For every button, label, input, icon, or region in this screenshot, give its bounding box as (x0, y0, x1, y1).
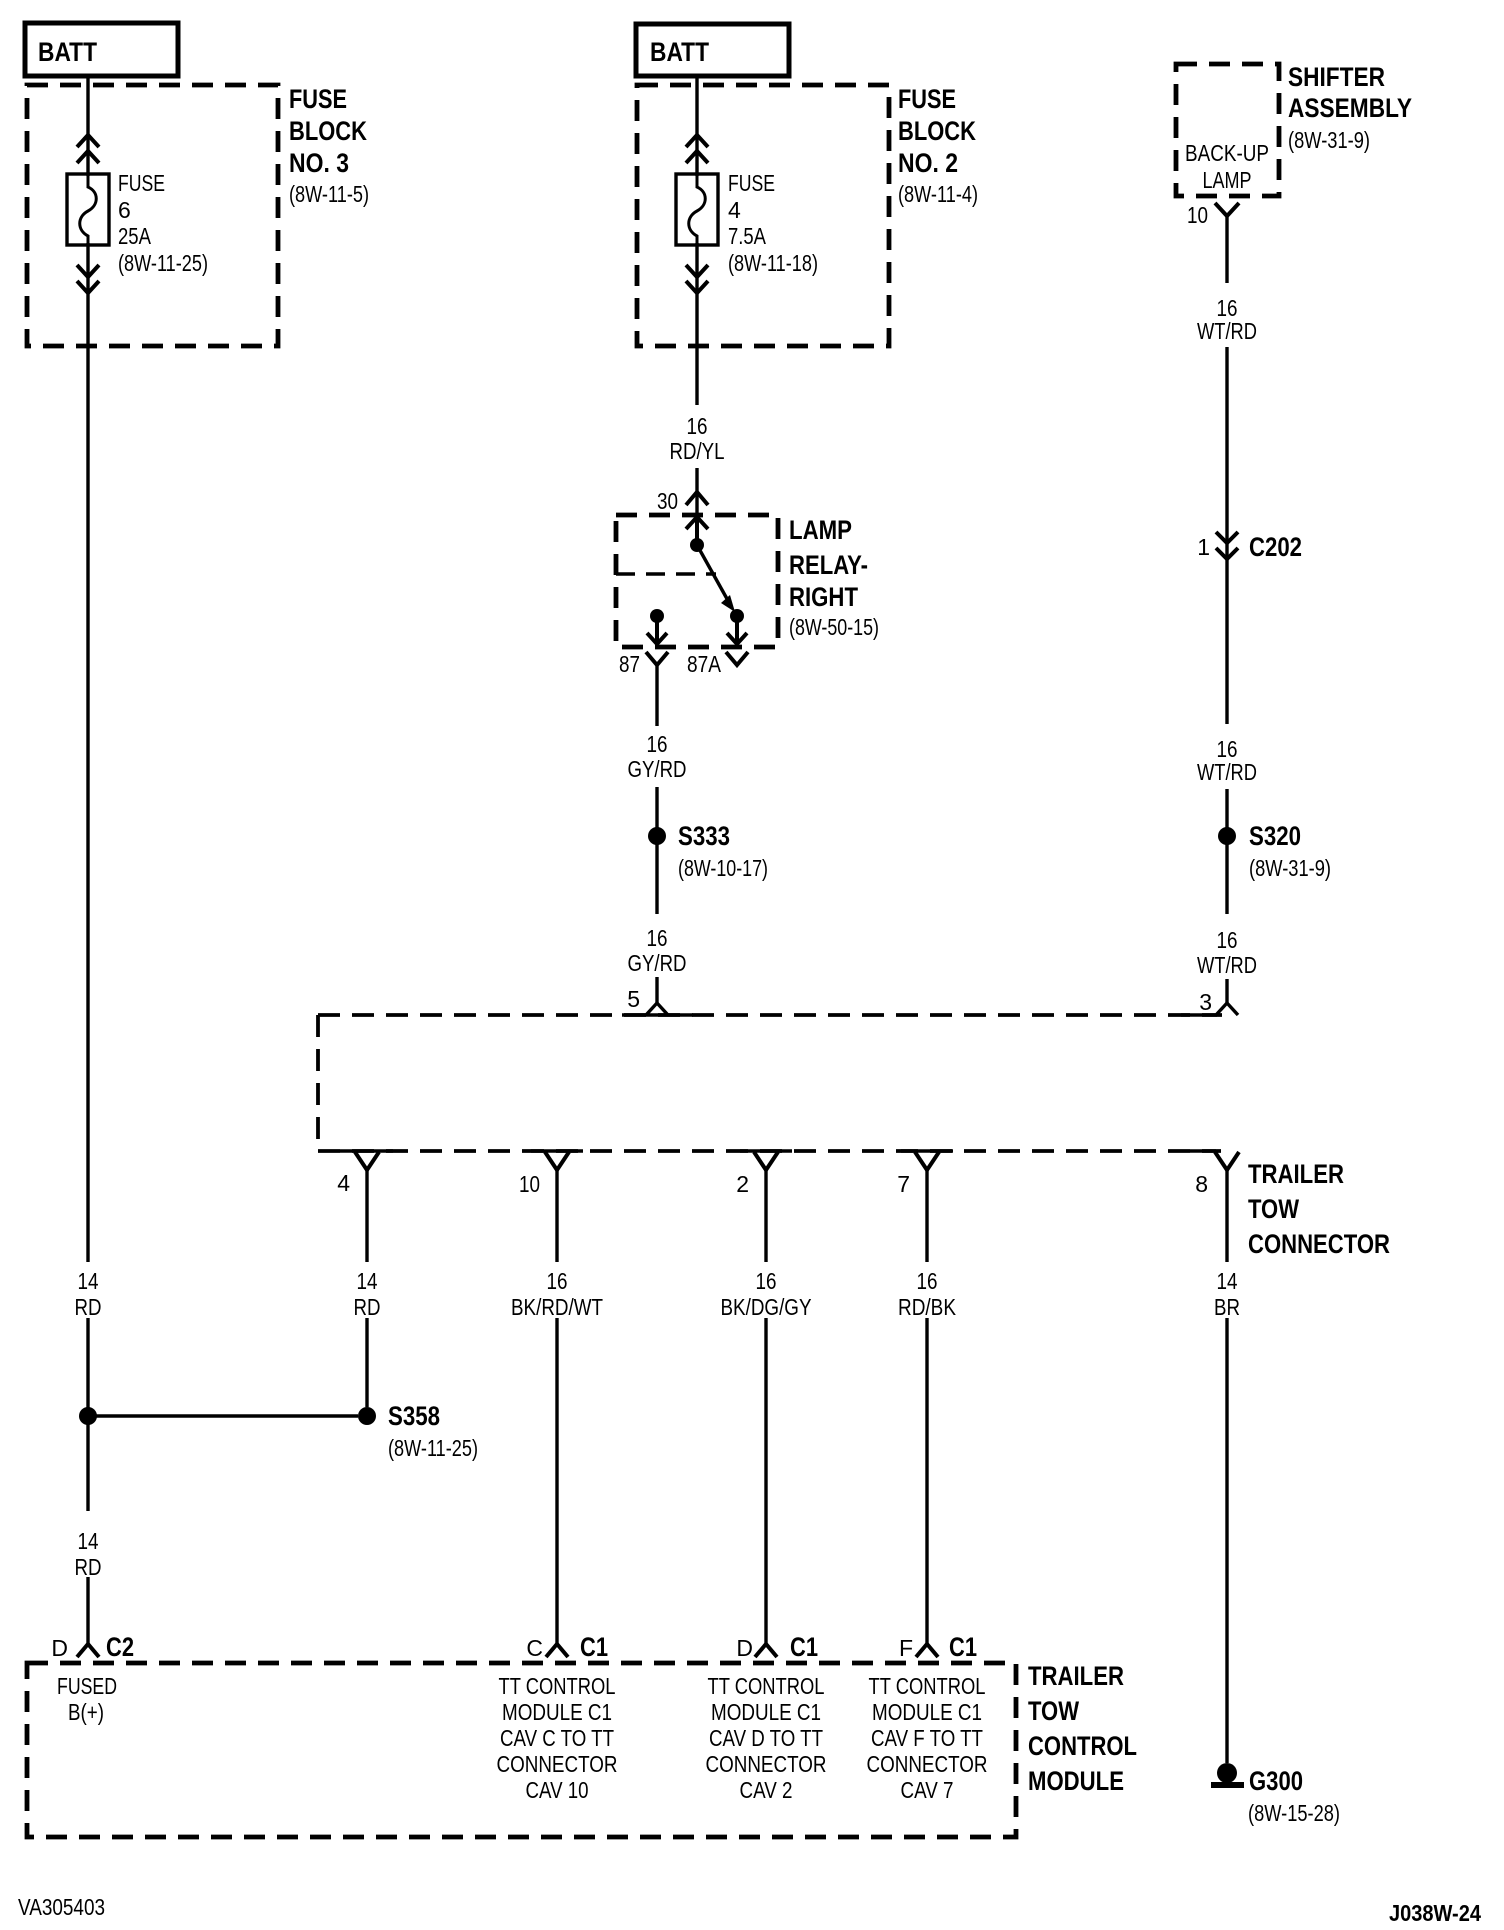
svg-text:WT/RD: WT/RD (1197, 318, 1257, 344)
svg-text:D: D (736, 1635, 753, 1661)
splice S358 left dot (79, 1407, 97, 1425)
fuse block no.2 dashed box (637, 85, 889, 346)
wire label 14 RD left column (75, 1268, 102, 1320)
splice S320 (1218, 827, 1236, 845)
svg-text:1: 1 (1197, 534, 1210, 560)
svg-text:FUSE: FUSE (118, 170, 165, 196)
svg-text:7.5A: 7.5A (728, 223, 767, 249)
battery feed B2 (middle BATT box) (636, 24, 789, 76)
svg-text:FUSE: FUSE (728, 170, 775, 196)
svg-text:ASSEMBLY: ASSEMBLY (1288, 93, 1412, 123)
svg-text:C1: C1 (790, 1632, 818, 1662)
wire fuse F4 to relay pin 30 (695, 243, 698, 405)
svg-text:87: 87 (619, 651, 640, 677)
svg-text:14: 14 (78, 1528, 99, 1554)
svg-text:3: 3 (1199, 989, 1212, 1015)
fuse block no.2 name label (898, 84, 978, 207)
wire pin8 to G300 (1225, 1318, 1228, 1763)
wire label 16 BK/DG/GY (721, 1268, 812, 1320)
wire label 14 RD pin4 (354, 1268, 381, 1320)
svg-text:(8W-31-9): (8W-31-9) (1288, 127, 1370, 153)
svg-text:C1: C1 (949, 1632, 977, 1662)
svg-text:BLOCK: BLOCK (898, 116, 976, 146)
wire S333 to connector pin 5 (655, 977, 658, 1003)
svg-text:S358: S358 (388, 1401, 440, 1431)
svg-text:25A: 25A (118, 223, 152, 249)
trailer tow connector dashed bus bottom (318, 1149, 1221, 1153)
fuse F4 (676, 174, 718, 245)
trailer tow connector dashed bus left drop (316, 1015, 320, 1151)
ground G300 (1211, 1763, 1340, 1826)
svg-text:CONNECTOR: CONNECTOR (867, 1751, 988, 1777)
shifter assembly dashed box (1176, 64, 1279, 196)
svg-text:FUSE: FUSE (898, 84, 956, 114)
trailer tow control module name label (1028, 1661, 1137, 1796)
svg-text:(8W-50-15): (8W-50-15) (789, 614, 879, 640)
svg-text:MODULE: MODULE (1028, 1766, 1124, 1796)
wire label 14 RD lower left (75, 1528, 102, 1580)
pin 4 connector Y (355, 1152, 379, 1170)
svg-text:TOW: TOW (1248, 1194, 1299, 1224)
relay common node dot (690, 538, 704, 552)
svg-text:(8W-11-18): (8W-11-18) (728, 250, 818, 276)
svg-text:16: 16 (647, 925, 668, 951)
svg-text:CAV D TO TT: CAV D TO TT (709, 1725, 823, 1751)
wire pin2 to module pin D (764, 1318, 767, 1644)
svg-text:(8W-11-4): (8W-11-4) (898, 181, 978, 207)
solid bus segment at pin 3 (1181, 1013, 1217, 1016)
svg-text:J038W-24: J038W-24 (1389, 1900, 1481, 1926)
wire BATT1 to fuse F6 (86, 76, 89, 176)
splice S358 label (388, 1401, 478, 1461)
svg-text:RD/YL: RD/YL (670, 438, 725, 464)
svg-text:6: 6 (118, 197, 131, 223)
svg-text:MODULE C1: MODULE C1 (711, 1699, 821, 1725)
pin 8 connector Y (1215, 1152, 1239, 1170)
solid bus segment at pin 7 (901, 1149, 953, 1152)
splice S333 (648, 827, 666, 845)
solid bus segment at pin 8 (1190, 1149, 1216, 1152)
connector chevrons above fuse F4 (686, 135, 708, 163)
pin 5 flare (646, 1003, 668, 1015)
svg-text:5: 5 (627, 986, 640, 1012)
fuse F4 value labels (728, 170, 818, 276)
wire pin10 to module pin C (555, 1318, 558, 1644)
trailer tow control module dashed box (27, 1663, 1016, 1837)
battery feed B1 (left BATT box) (25, 23, 178, 76)
svg-text:16: 16 (647, 731, 668, 757)
svg-text:TT CONTROL: TT CONTROL (869, 1673, 986, 1699)
svg-text:RD: RD (75, 1294, 102, 1320)
svg-text:BLOCK: BLOCK (289, 116, 367, 146)
wire S320 to connector pin 3 (1225, 979, 1228, 1003)
pin F C1 labels (899, 1632, 977, 1662)
svg-text:10: 10 (1187, 202, 1208, 228)
svg-text:LAMP: LAMP (1203, 167, 1252, 193)
svg-text:C202: C202 (1249, 532, 1302, 562)
svg-text:CONNECTOR: CONNECTOR (497, 1751, 618, 1777)
svg-text:BATT: BATT (38, 37, 97, 67)
module pin F C1 flare (916, 1644, 938, 1657)
relay internal dashed divider (616, 572, 716, 576)
module pin C function label (497, 1673, 618, 1803)
wire shifter pin10 down (1225, 216, 1228, 283)
solid bus segment at pin 2 (740, 1149, 792, 1152)
svg-text:(8W-15-28): (8W-15-28) (1248, 1800, 1340, 1826)
svg-text:GY/RD: GY/RD (628, 756, 687, 782)
wire label 16 WT/RD middle (1197, 736, 1257, 785)
wire label 16 WT/RD lower (1197, 927, 1257, 978)
pin 30 connector flare (686, 492, 708, 505)
wire pin7 to module pin F (925, 1318, 928, 1644)
svg-text:C: C (526, 1635, 543, 1661)
wire label 16 RD/YL (670, 413, 725, 464)
svg-text:(8W-11-25): (8W-11-25) (118, 250, 208, 276)
wire S358 to module pin D (86, 1577, 89, 1644)
svg-text:2: 2 (736, 1171, 749, 1197)
fuse F6 value labels (118, 170, 208, 276)
pin 2 connector Y (754, 1152, 778, 1170)
svg-text:BR: BR (1214, 1294, 1240, 1320)
relay name label (789, 515, 879, 640)
svg-text:14: 14 (357, 1268, 378, 1294)
module pin C C1 flare (546, 1644, 568, 1657)
fuse block no.3 dashed box (27, 85, 278, 346)
svg-text:D: D (51, 1635, 68, 1661)
svg-text:RD: RD (354, 1294, 381, 1320)
wire to C202 (1225, 347, 1228, 724)
pin C C1 labels (526, 1632, 608, 1662)
svg-text:4: 4 (728, 197, 741, 223)
trailer tow connector name label (1248, 1159, 1390, 1259)
relay pin 87A arrow down (727, 616, 747, 644)
wire into S320 (1225, 789, 1228, 914)
wire label 16 GY/RD lower (628, 925, 687, 976)
relay switch arm (697, 545, 731, 606)
svg-text:RELAY-: RELAY- (789, 550, 868, 580)
wire BATT2 to fuse F4 (695, 76, 698, 176)
svg-text:F: F (899, 1635, 913, 1661)
pin 87A connector V (726, 652, 748, 665)
svg-text:16: 16 (756, 1268, 777, 1294)
svg-text:TT CONTROL: TT CONTROL (499, 1673, 616, 1699)
pin 87 connector V (646, 652, 668, 665)
svg-text:GY/RD: GY/RD (628, 950, 687, 976)
svg-text:CAV C TO TT: CAV C TO TT (500, 1725, 614, 1751)
svg-text:87A: 87A (687, 651, 722, 677)
solid bus segment at pin 5 (622, 1013, 693, 1016)
svg-text:CAV F TO TT: CAV F TO TT (871, 1725, 983, 1751)
connector chevrons below fuse F4 (686, 265, 708, 293)
svg-text:VA305403: VA305403 (18, 1894, 105, 1920)
module pin F function label (867, 1673, 988, 1803)
pin D C1 labels (736, 1632, 818, 1662)
svg-text:RD/BK: RD/BK (898, 1294, 957, 1320)
svg-text:TRAILER: TRAILER (1028, 1661, 1124, 1691)
wire pin4 to S358 (365, 1318, 368, 1407)
wire fuse F6 down left column (86, 243, 89, 1262)
module pin D function label (57, 1673, 117, 1725)
relay K1 LAMP RELAY-RIGHT dashed box (616, 515, 778, 647)
pin 7 connector Y (915, 1152, 939, 1170)
svg-text:16: 16 (547, 1268, 568, 1294)
svg-text:FUSED: FUSED (57, 1673, 117, 1699)
relay pin 87A dot (730, 609, 744, 623)
module pin D C2 flare (77, 1644, 99, 1657)
svg-text:4: 4 (337, 1170, 350, 1196)
svg-text:TOW: TOW (1028, 1696, 1079, 1726)
svg-text:14: 14 (78, 1268, 99, 1294)
wire label 16 WT/RD top (1197, 295, 1257, 344)
svg-text:SHIFTER: SHIFTER (1288, 62, 1385, 92)
svg-text:C2: C2 (106, 1632, 134, 1662)
svg-text:C1: C1 (580, 1632, 608, 1662)
svg-text:CONNECTOR: CONNECTOR (706, 1751, 827, 1777)
svg-text:G300: G300 (1249, 1766, 1303, 1796)
svg-text:BK/DG/GY: BK/DG/GY (721, 1294, 812, 1320)
solid bus segment at pin 10 (531, 1149, 583, 1152)
shifter assembly name label (1288, 62, 1412, 153)
wire into S333 (655, 787, 658, 914)
wire label 16 BK/RD/WT (511, 1268, 603, 1320)
connector C202 chevrons (1216, 532, 1238, 559)
svg-text:(8W-31-9): (8W-31-9) (1249, 855, 1331, 881)
svg-text:B(+): B(+) (68, 1699, 104, 1725)
relay pin 30 arrow (686, 517, 708, 545)
svg-text:8: 8 (1195, 1171, 1208, 1197)
svg-text:CAV 2: CAV 2 (740, 1777, 793, 1803)
svg-text:7: 7 (897, 1171, 910, 1197)
svg-text:S320: S320 (1249, 821, 1301, 851)
svg-text:(8W-11-5): (8W-11-5) (289, 181, 369, 207)
wire label 16 RD/BK (898, 1268, 957, 1320)
wire label 16 GY/RD upper (628, 731, 687, 782)
svg-text:10: 10 (519, 1171, 540, 1197)
svg-text:CAV 7: CAV 7 (901, 1777, 954, 1803)
svg-text:FUSE: FUSE (289, 84, 347, 114)
pin 10 connector Y (545, 1152, 569, 1170)
svg-text:NO. 2: NO. 2 (898, 148, 958, 178)
svg-text:TRAILER: TRAILER (1248, 1159, 1344, 1189)
svg-text:BACK-UP: BACK-UP (1185, 140, 1269, 166)
svg-text:14: 14 (1217, 1268, 1238, 1294)
svg-text:BATT: BATT (650, 37, 709, 67)
pin 10 connector Y (1215, 203, 1239, 216)
module pin D C1 flare (755, 1644, 777, 1657)
svg-text:16: 16 (917, 1268, 938, 1294)
svg-text:MODULE C1: MODULE C1 (872, 1699, 982, 1725)
svg-text:RD: RD (75, 1554, 102, 1580)
wire left column to S358 (86, 1318, 89, 1511)
svg-text:RIGHT: RIGHT (789, 582, 858, 612)
svg-text:CAV 10: CAV 10 (526, 1777, 589, 1803)
svg-text:MODULE C1: MODULE C1 (502, 1699, 612, 1725)
relay pin 87 arrow down (647, 616, 667, 644)
solid bus segment at pin 4 (340, 1149, 393, 1152)
connector chevrons below fuse F6 (77, 265, 99, 293)
module pin D function label (706, 1673, 827, 1803)
svg-text:30: 30 (657, 488, 678, 514)
svg-text:WT/RD: WT/RD (1197, 759, 1257, 785)
svg-text:CONNECTOR: CONNECTOR (1248, 1229, 1390, 1259)
svg-text:(8W-11-25): (8W-11-25) (388, 1435, 478, 1461)
wire label 14 BR (1214, 1268, 1240, 1320)
svg-text:16: 16 (687, 413, 708, 439)
pin D C2 labels (51, 1632, 134, 1662)
fuse block no.3 name label (289, 84, 369, 207)
relay pin 87 dot (650, 609, 664, 623)
wire to relay pin 30 (695, 468, 698, 515)
splice S358 tie wire (88, 1414, 358, 1417)
svg-text:CONTROL: CONTROL (1028, 1731, 1137, 1761)
connector chevrons above fuse F6 (77, 135, 99, 163)
svg-text:BK/RD/WT: BK/RD/WT (511, 1294, 603, 1320)
svg-text:LAMP: LAMP (789, 515, 852, 545)
svg-text:16: 16 (1217, 927, 1238, 953)
svg-text:WT/RD: WT/RD (1197, 952, 1257, 978)
trailer tow connector dashed bus top (318, 1013, 1222, 1017)
svg-text:TT CONTROL: TT CONTROL (708, 1673, 825, 1699)
svg-text:S333: S333 (678, 821, 730, 851)
wire 87 to S333 (655, 665, 658, 726)
fuse F6 (67, 174, 109, 245)
splice S358 right dot (358, 1407, 376, 1425)
svg-text:(8W-10-17): (8W-10-17) (678, 855, 768, 881)
svg-text:NO. 3: NO. 3 (289, 148, 349, 178)
pin 3 flare (1216, 1003, 1238, 1015)
